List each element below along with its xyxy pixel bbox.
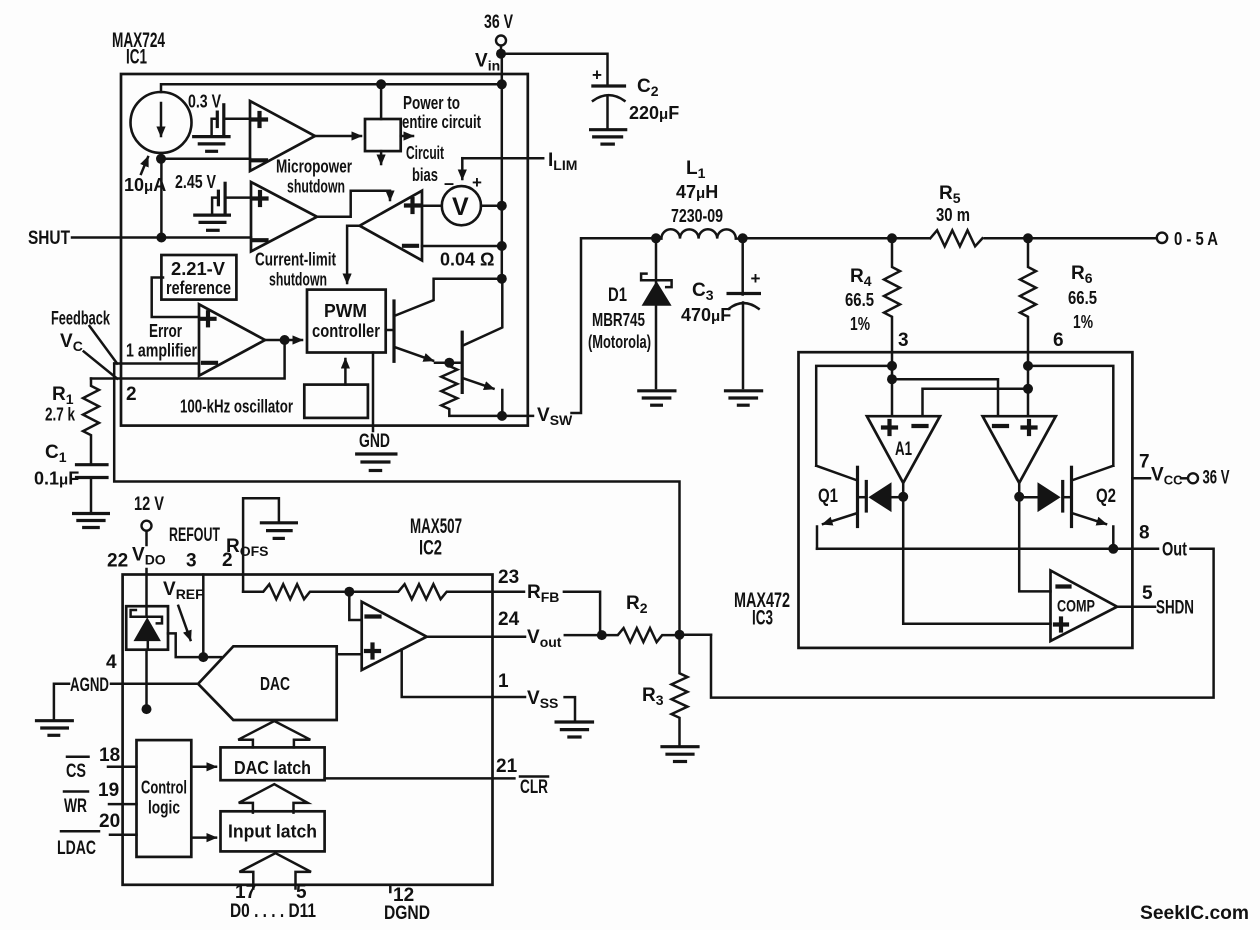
node Feedback label bbox=[51, 309, 117, 379]
wire DAC latch to CLR pin 21 bbox=[325, 756, 549, 798]
svg-text:IC2: IC2 bbox=[419, 537, 442, 560]
svg-text:6: 6 bbox=[1053, 330, 1064, 351]
svg-text:controller: controller bbox=[312, 321, 380, 341]
svg-text:20: 20 bbox=[99, 811, 120, 832]
node CS pin 18 bbox=[66, 745, 137, 782]
svg-text:1%: 1% bbox=[850, 314, 870, 334]
wire output rail bbox=[743, 237, 929, 240]
svg-text:7: 7 bbox=[1139, 452, 1150, 473]
node ROFS pin 2 with ground bbox=[222, 498, 296, 591]
svg-text:220μF: 220μF bbox=[629, 103, 679, 123]
op-amp COMP bbox=[1051, 571, 1118, 642]
svg-text:5: 5 bbox=[1142, 583, 1153, 604]
wire cross couple A2 plus to A1 minus bbox=[923, 389, 1029, 416]
wire A1 output node bbox=[898, 483, 908, 502]
wire op-amp1 minus input bbox=[161, 158, 250, 161]
svg-text:1 amplifier: 1 amplifier bbox=[126, 341, 197, 361]
op-amp error amplifier bbox=[126, 304, 265, 375]
capacitor C3 470uF bbox=[681, 238, 762, 405]
svg-text:bias: bias bbox=[412, 165, 438, 185]
svg-text:Feedback: Feedback bbox=[51, 309, 110, 330]
node pin 1 VSS with ground bbox=[493, 671, 593, 737]
100-kHz oscillator box bbox=[180, 359, 368, 418]
diode D1 MBR745 bbox=[588, 238, 675, 405]
wire A2 output node bbox=[1014, 483, 1024, 502]
op-amp output buffer bbox=[362, 602, 427, 670]
wire feedback net from divider bbox=[114, 364, 679, 635]
wire control logic to input latch bbox=[191, 836, 216, 839]
svg-text:30 m: 30 m bbox=[936, 205, 970, 225]
svg-text:logic: logic bbox=[148, 798, 180, 818]
svg-text:Current-limit: Current-limit bbox=[255, 250, 336, 270]
svg-text:12 V: 12 V bbox=[134, 494, 164, 515]
control logic box bbox=[137, 740, 192, 857]
resistor R1 2.7k bbox=[45, 379, 99, 465]
inductor L1 47uH bbox=[651, 158, 748, 243]
node VREF label with arrow bbox=[163, 579, 204, 640]
node pins 17 5 D0-D11 bbox=[230, 882, 316, 922]
svg-text:IC1: IC1 bbox=[126, 46, 147, 69]
op-amp U3 IC3 outer box MAX472 bbox=[734, 352, 1132, 648]
op-amp A2 bbox=[983, 416, 1056, 483]
op-amp U1 IC1 outer box MAX724 bbox=[112, 29, 528, 426]
resistor RFB internal bbox=[344, 584, 492, 599]
ground GND bbox=[357, 431, 396, 471]
node ILIM bbox=[462, 150, 577, 179]
svg-text:5: 5 bbox=[296, 882, 307, 903]
op-amp A1 bbox=[867, 416, 940, 483]
node VCC pin 7 bbox=[1132, 452, 1229, 489]
svg-text:10μA: 10μA bbox=[124, 175, 166, 195]
svg-text:47μH: 47μH bbox=[676, 182, 718, 202]
svg-text:0.3 V: 0.3 V bbox=[188, 92, 221, 112]
svg-text:SHUT: SHUT bbox=[28, 228, 70, 249]
node REFOUT pin 3 bbox=[169, 525, 220, 657]
wire Vin rail vertical bbox=[501, 54, 504, 279]
svg-text:Q2: Q2 bbox=[1096, 486, 1116, 507]
svg-text:470μF: 470μF bbox=[681, 305, 731, 325]
svg-text:COMP: COMP bbox=[1057, 597, 1095, 616]
wire PWM to GND bbox=[372, 353, 375, 432]
wire divider node to out loop bbox=[680, 633, 712, 636]
wire error amp minus input bbox=[114, 362, 199, 365]
svg-text:IC3: IC3 bbox=[752, 607, 773, 630]
svg-text:2.45 V: 2.45 V bbox=[175, 172, 216, 192]
wire DAC to op-amp plus bbox=[337, 653, 362, 656]
wire reference to DAC input bbox=[168, 633, 221, 662]
svg-text:Error: Error bbox=[149, 321, 182, 341]
bus arrow input latch to DAC latch bbox=[239, 784, 308, 812]
op-amp current-limit comparator (left pointing) bbox=[360, 191, 422, 261]
wire op-amp2 output into current-limit comparator bbox=[317, 191, 390, 217]
svg-text:shutdown: shutdown bbox=[287, 177, 345, 197]
svg-text:–: – bbox=[444, 173, 454, 193]
2.21-V reference box bbox=[152, 255, 237, 317]
svg-text:2: 2 bbox=[222, 550, 233, 571]
svg-text:1: 1 bbox=[498, 671, 509, 692]
wire rail to output terminal bbox=[985, 229, 1218, 249]
svg-text:66.5: 66.5 bbox=[845, 290, 874, 310]
wire comparator output to PWM bbox=[347, 226, 360, 283]
svg-text:entire circuit: entire circuit bbox=[402, 112, 481, 132]
battery 0.3V reference bbox=[188, 92, 250, 152]
svg-text:SHDN: SHDN bbox=[1156, 598, 1194, 619]
svg-text:MBR745: MBR745 bbox=[592, 310, 645, 330]
wire op-amp1 output to power box bbox=[315, 135, 361, 138]
svg-text:23: 23 bbox=[498, 567, 519, 588]
svg-text:3: 3 bbox=[186, 551, 197, 572]
transistor Q1 bbox=[816, 366, 892, 549]
svg-text:36 V: 36 V bbox=[1203, 468, 1230, 489]
capacitor C1 0.1uF bbox=[34, 442, 108, 528]
svg-text:Q1: Q1 bbox=[818, 486, 838, 507]
transistor driver Q bbox=[386, 274, 507, 362]
svg-text:V: V bbox=[452, 193, 469, 221]
svg-text:REFOUT: REFOUT bbox=[169, 525, 220, 546]
node pin 23 RFB bbox=[493, 567, 601, 635]
PWM controller box bbox=[307, 290, 386, 353]
wire VSS pin 1 bbox=[402, 650, 493, 698]
wire op-amp output to pin 24 bbox=[427, 635, 493, 638]
svg-text:Micropower: Micropower bbox=[276, 157, 352, 177]
node driver emitter junction bbox=[435, 358, 462, 368]
svg-text:Circuit: Circuit bbox=[406, 143, 444, 163]
bus arrow DAC latch to DAC bbox=[238, 721, 310, 747]
svg-text:8: 8 bbox=[1139, 523, 1150, 544]
svg-text:Input latch: Input latch bbox=[228, 822, 317, 842]
current source 10uA bbox=[124, 92, 192, 195]
svg-text:2: 2 bbox=[126, 384, 137, 405]
svg-text:shutdown: shutdown bbox=[269, 270, 327, 290]
wire VDO through reference to dot bbox=[142, 650, 152, 714]
power distribution box bbox=[365, 84, 481, 185]
svg-text:19: 19 bbox=[98, 780, 119, 801]
svg-text:18: 18 bbox=[99, 745, 120, 766]
svg-text:MAX507: MAX507 bbox=[410, 515, 462, 538]
wire cross couple A1 plus to A2 minus bbox=[892, 379, 998, 416]
svg-text:D0 . . . . D11: D0 . . . . D11 bbox=[230, 901, 316, 922]
svg-text:7230-09: 7230-09 bbox=[671, 206, 723, 226]
svg-text:DAC latch: DAC latch bbox=[234, 758, 311, 778]
capacitor C2 220uF bbox=[591, 66, 680, 145]
node AGND pin 4 bbox=[37, 652, 199, 735]
svg-text:36 V: 36 V bbox=[484, 12, 513, 33]
diode Q2 base-collector bbox=[1019, 482, 1071, 513]
svg-text:4: 4 bbox=[106, 652, 117, 673]
svg-text:100-kHz oscillator: 100-kHz oscillator bbox=[180, 397, 293, 417]
svg-text:2.21-V: 2.21-V bbox=[171, 259, 225, 279]
resistor R4 66.5 1% bbox=[845, 238, 909, 352]
node SHUT input bbox=[28, 159, 251, 249]
svg-text:Out: Out bbox=[1162, 540, 1188, 561]
svg-text:21: 21 bbox=[496, 756, 518, 777]
wire VC line to error amp output bbox=[91, 335, 302, 379]
resistor R2 bbox=[602, 593, 685, 642]
bus arrow data input to input latch bbox=[239, 853, 311, 888]
svg-text:Control: Control bbox=[141, 778, 187, 798]
svg-text:24: 24 bbox=[498, 609, 520, 630]
svg-text:DGND: DGND bbox=[384, 903, 430, 924]
wire A2 out to COMP minus bbox=[1019, 497, 1050, 592]
input latch box bbox=[221, 811, 325, 851]
svg-text:66.5: 66.5 bbox=[1068, 288, 1097, 308]
resistor R6 66.5 1% bbox=[1020, 238, 1097, 352]
wire pin6 sense line into A2 bbox=[1023, 352, 1033, 416]
DAC latch box bbox=[221, 747, 325, 780]
svg-text:CLR: CLR bbox=[520, 777, 548, 798]
wire IC1 inner top rail bbox=[161, 79, 507, 92]
svg-text:GND: GND bbox=[359, 431, 390, 452]
svg-text:Power to: Power to bbox=[403, 93, 460, 113]
node pin 12 DGND bbox=[384, 885, 430, 924]
wire pin3 sense line into A1 bbox=[887, 352, 897, 416]
node 12V terminal VDO pin 22 bbox=[107, 494, 166, 606]
svg-text:DAC: DAC bbox=[260, 674, 290, 694]
diode Q1 base-collector bbox=[858, 482, 904, 513]
resistor R5 30m current sense bbox=[887, 183, 982, 246]
node Vin 36V terminal bbox=[475, 12, 513, 74]
wire A1 out to COMP plus bbox=[903, 497, 1050, 624]
wire COMP output pin 5 SHDN bbox=[1117, 583, 1194, 619]
svg-text:17: 17 bbox=[235, 882, 256, 903]
transistor Q2 bbox=[1028, 366, 1118, 554]
transistor output Q bbox=[462, 279, 502, 416]
meter V current sense bbox=[422, 173, 507, 225]
svg-text:22: 22 bbox=[107, 551, 128, 572]
op-amp micropower shutdown bbox=[250, 101, 352, 197]
svg-text:reference: reference bbox=[166, 278, 231, 298]
svg-text:0.1μF: 0.1μF bbox=[34, 469, 79, 489]
wire RFB node to op-amp minus bbox=[349, 592, 361, 620]
wire control logic to DAC latch bbox=[191, 766, 216, 769]
resistor ROFS internal bbox=[243, 584, 349, 599]
resistor R3 with ground bbox=[642, 635, 698, 762]
svg-text:(Motorola): (Motorola) bbox=[588, 332, 651, 352]
svg-text:WR: WR bbox=[64, 796, 87, 817]
svg-text:2.7 k: 2.7 k bbox=[45, 405, 76, 425]
wire Vin to C2 bbox=[501, 54, 608, 86]
node WR pin 19 bbox=[64, 780, 137, 817]
svg-text:A1: A1 bbox=[895, 439, 912, 460]
battery 2.45V reference bbox=[175, 172, 251, 230]
node LDAC pin 20 bbox=[57, 811, 137, 859]
svg-text:D1: D1 bbox=[608, 285, 627, 306]
svg-text:AGND: AGND bbox=[70, 675, 109, 696]
svg-text:0 - 5 A: 0 - 5 A bbox=[1174, 229, 1218, 249]
wire comparator minus to rail / resistor 0.04 ohm bbox=[422, 241, 507, 270]
resistor base bleed bbox=[441, 363, 502, 416]
svg-text:SeekIC.com: SeekIC.com bbox=[1140, 902, 1249, 924]
svg-text:+: + bbox=[472, 173, 482, 192]
svg-text:CS: CS bbox=[66, 761, 86, 782]
node VSW bbox=[497, 238, 656, 428]
wire Out line pin 8 bbox=[711, 523, 1214, 698]
node pin 24 Vout bbox=[493, 609, 607, 650]
svg-text:PWM: PWM bbox=[324, 301, 367, 321]
op-amp current-limit shutdown bbox=[251, 182, 336, 290]
svg-text:3: 3 bbox=[898, 330, 909, 351]
svg-text:LDAC: LDAC bbox=[57, 838, 96, 859]
svg-text:+: + bbox=[751, 269, 761, 288]
svg-text:0.04 Ω: 0.04 Ω bbox=[440, 250, 494, 270]
svg-text:1%: 1% bbox=[1073, 312, 1093, 332]
diode bandgap reference box bbox=[126, 606, 168, 650]
svg-text:+: + bbox=[592, 66, 602, 85]
op-amp U2 IC2 outer box MAX507 bbox=[123, 515, 493, 885]
DAC block bbox=[198, 646, 337, 720]
